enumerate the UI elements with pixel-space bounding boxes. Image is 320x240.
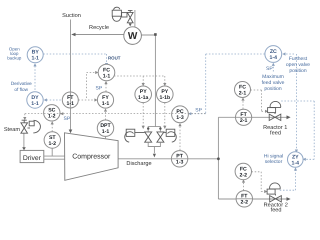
svg-text:1-1: 1-1 [102, 129, 110, 135]
svg-text:Discharge: Discharge [126, 160, 151, 167]
svg-text:1-1a: 1-1a [138, 95, 148, 101]
svg-text:position: position [289, 68, 306, 74]
svg-text:Compressor: Compressor [72, 154, 111, 161]
svg-text:position: position [264, 86, 281, 92]
svg-text:2-2: 2-2 [240, 172, 248, 178]
svg-text:1-1b: 1-1b [159, 95, 170, 101]
svg-text:of flow: of flow [14, 87, 28, 92]
svg-text:Steam: Steam [4, 127, 21, 133]
svg-text:2-2: 2-2 [241, 200, 249, 206]
svg-text:1-4: 1-4 [292, 160, 300, 166]
svg-text:W: W [128, 31, 138, 42]
svg-text:Derivative: Derivative [11, 81, 32, 86]
svg-text:feed: feed [270, 130, 281, 137]
svg-text:backup: backup [7, 56, 22, 61]
svg-text:1-4: 1-4 [270, 55, 278, 61]
svg-text:2-1: 2-1 [240, 118, 248, 124]
svg-text:1-2: 1-2 [48, 114, 56, 120]
svg-text:1-1: 1-1 [102, 101, 110, 107]
svg-text:Driver: Driver [23, 155, 42, 162]
svg-text:1-2: 1-2 [49, 141, 57, 147]
svg-text:Suction: Suction [62, 12, 81, 19]
svg-text:1-1: 1-1 [31, 56, 39, 62]
svg-text:1-1: 1-1 [67, 101, 75, 107]
svg-text:1-1: 1-1 [31, 101, 39, 107]
svg-text:SP: SP [266, 66, 273, 72]
svg-text:Furthest: Furthest [289, 56, 308, 62]
svg-text:SP: SP [96, 85, 103, 91]
svg-text:SP: SP [64, 116, 71, 122]
svg-text:1-1: 1-1 [103, 73, 111, 79]
svg-text:feed: feed [271, 206, 282, 213]
svg-text:1-3: 1-3 [176, 160, 184, 166]
svg-text:Recycle: Recycle [89, 24, 109, 31]
svg-text:ROUT: ROUT [108, 56, 121, 61]
svg-text:1-3: 1-3 [176, 115, 184, 121]
svg-text:selector: selector [265, 159, 283, 165]
svg-text:SP: SP [195, 107, 202, 113]
svg-text:2-1: 2-1 [239, 90, 247, 96]
svg-text:open valve: open valve [286, 62, 310, 68]
